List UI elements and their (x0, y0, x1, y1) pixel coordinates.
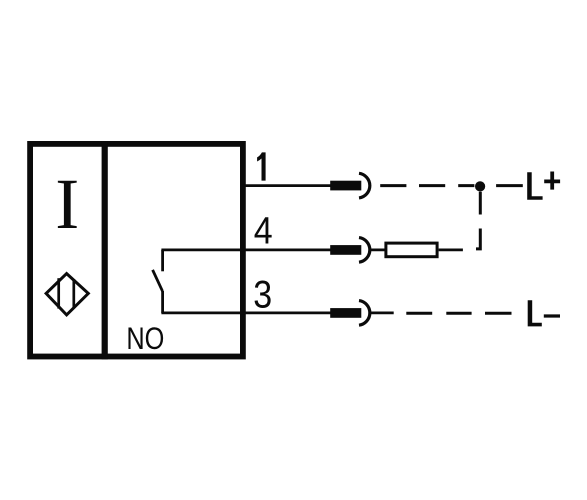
connector pin 3 (330, 308, 361, 318)
L- label (528, 300, 542, 326)
dashed wire node to L+ (496, 184, 523, 187)
connector pin 4 (330, 245, 361, 255)
NO contact switch (153, 250, 163, 313)
wire arc4 to load (370, 248, 386, 251)
proximity switch diamond symbol (46, 274, 88, 315)
svg-text:I: I (55, 164, 79, 244)
wire load to corner (439, 248, 463, 251)
wire pin3 (switch bottom line through box wall) (161, 311, 331, 314)
dashed wire pin1 to node (380, 184, 474, 187)
svg-text:4: 4 (254, 209, 273, 252)
wire pin4 (switch top line through box wall) (161, 248, 331, 251)
connector pin 1 (330, 181, 361, 191)
dashed wire pin3 to L- (406, 312, 511, 315)
sensor body divider (102, 141, 108, 359)
load resistor (386, 243, 437, 257)
dashed wire corner up to node (476, 192, 480, 249)
wire pin1 (243, 184, 331, 187)
svg-text:NO: NO (126, 320, 164, 356)
pin label 1 (257, 152, 266, 180)
connector socket arc 3 (359, 301, 370, 326)
L+ label (527, 172, 542, 200)
connector socket arc 1 (359, 173, 370, 198)
wire arc3 lead (370, 311, 394, 314)
sensor body box (30, 144, 243, 357)
svg-text:3: 3 (253, 274, 272, 317)
node junction dot (475, 181, 485, 191)
connector socket arc 4 (359, 238, 370, 263)
